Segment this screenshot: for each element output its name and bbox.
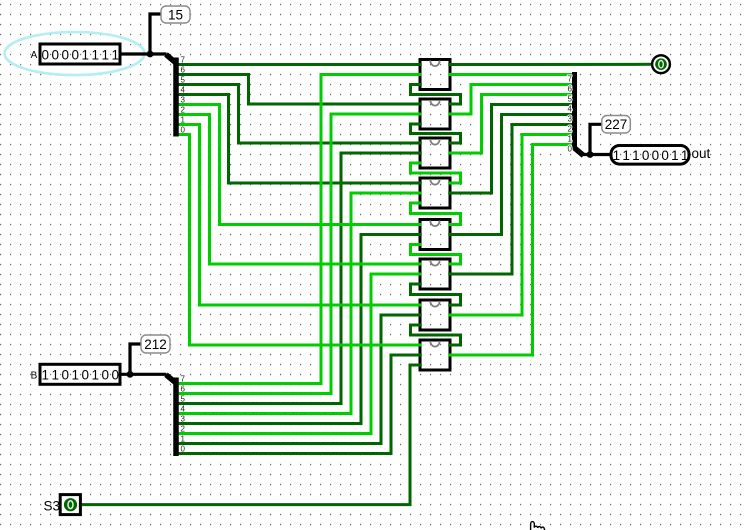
svg-text:1: 1 <box>568 135 573 144</box>
svg-text:7: 7 <box>181 56 186 65</box>
svg-text:0: 0 <box>642 148 650 163</box>
wire U6.sum to out bit2 <box>448 125 573 275</box>
wire B bit5 to U3.b <box>178 153 422 404</box>
bus wire B <box>120 373 167 376</box>
svg-text:1: 1 <box>82 47 90 62</box>
wire B bit4 to U4.b <box>178 193 422 414</box>
wire B bit2 to U6.b <box>178 274 422 434</box>
svg-text:6: 6 <box>181 66 186 75</box>
wire U1.cout to carry-out pin <box>448 63 652 66</box>
splitter for A (8-bit fanout) <box>166 55 186 137</box>
full-adder box U3 (bit 5) <box>420 138 450 168</box>
full-adder box U2 (bit 6) <box>420 99 450 129</box>
svg-text:227: 227 <box>605 117 628 132</box>
svg-text:6: 6 <box>181 385 186 394</box>
bus wire A <box>120 52 167 55</box>
svg-text:1: 1 <box>42 368 50 383</box>
svg-text:1: 1 <box>181 435 186 444</box>
svg-text:4: 4 <box>181 86 186 95</box>
svg-text:2: 2 <box>181 425 186 434</box>
probe 15 on A <box>161 6 190 23</box>
junction node on out bus <box>587 151 594 158</box>
probe 227 on out <box>602 116 631 134</box>
wire A bit2 to U6.a <box>178 115 422 265</box>
svg-text:1: 1 <box>112 47 120 62</box>
svg-text:B: B <box>31 370 38 381</box>
svg-text:1: 1 <box>92 368 100 383</box>
svg-text:1: 1 <box>622 148 630 163</box>
output pin out value 11100011 <box>611 146 711 165</box>
bus wire out <box>581 153 612 156</box>
svg-text:7: 7 <box>568 75 573 84</box>
hand cursor <box>531 522 546 530</box>
svg-text:0: 0 <box>82 368 90 383</box>
wire carry U3.cout to U2.cin <box>411 124 461 143</box>
wire B bit1 to U7.b <box>178 315 422 444</box>
svg-text:0: 0 <box>112 368 120 383</box>
wire B bit3 to U5.b <box>178 235 422 424</box>
wire carry U4.cout to U3.cin <box>411 163 461 183</box>
svg-text:0: 0 <box>181 126 186 135</box>
svg-text:0: 0 <box>181 445 186 454</box>
svg-text:0: 0 <box>652 148 660 163</box>
svg-text:1: 1 <box>671 148 679 163</box>
output pin carry-out value 0 <box>652 55 670 73</box>
svg-text:2: 2 <box>181 106 186 115</box>
wire U7.sum to out bit1 <box>448 135 573 316</box>
svg-text:S3: S3 <box>44 498 61 513</box>
wire U4.sum to out bit4 <box>448 105 573 194</box>
full-adder box U7 (bit 1) <box>420 300 450 330</box>
splitter for B (8-bit fanout) <box>166 375 186 456</box>
wire U5.sum to out bit3 <box>448 115 573 235</box>
junction node on B bus <box>127 371 134 378</box>
svg-text:3: 3 <box>181 96 186 105</box>
annotation oval around input A <box>5 32 145 75</box>
svg-text:6: 6 <box>568 85 573 94</box>
wire carry U8.cout to U7.cin <box>411 325 461 345</box>
full-adder box U6 (bit 2) <box>420 259 450 289</box>
svg-text:out: out <box>692 146 711 161</box>
svg-text:212: 212 <box>144 337 167 352</box>
wire B bit0 to U8.b <box>178 355 422 454</box>
input pin A value 00001111 <box>31 44 120 64</box>
svg-text:4: 4 <box>181 405 186 414</box>
svg-text:0: 0 <box>42 47 50 62</box>
svg-text:0: 0 <box>568 145 573 154</box>
svg-text:0: 0 <box>62 368 70 383</box>
svg-text:0: 0 <box>72 47 80 62</box>
svg-text:5: 5 <box>568 95 573 104</box>
wire B bit7 to U1.b <box>178 75 422 384</box>
svg-text:1: 1 <box>92 47 100 62</box>
svg-text:1: 1 <box>632 148 640 163</box>
wire A bit0 to U8.a <box>178 135 422 346</box>
wire A bit3 to U5.a <box>178 105 422 225</box>
svg-text:0: 0 <box>661 148 669 163</box>
svg-text:1: 1 <box>72 368 80 383</box>
input pin B value 11010100 <box>31 364 120 384</box>
junction node on A bus <box>147 51 154 58</box>
svg-text:1: 1 <box>102 47 110 62</box>
svg-text:0: 0 <box>62 47 70 62</box>
svg-text:3: 3 <box>181 415 186 424</box>
svg-text:5: 5 <box>181 395 186 404</box>
svg-text:3: 3 <box>568 115 573 124</box>
full-adder box U5 (bit 3) <box>420 220 450 250</box>
wire A bit6 to U2.a <box>178 75 422 105</box>
wire probe 212 stub <box>130 344 142 374</box>
svg-text:15: 15 <box>168 7 183 22</box>
full-adder box U4 (bit 4) <box>420 178 450 208</box>
wire A bit1 to U7.a <box>178 125 422 306</box>
svg-text:1: 1 <box>681 148 689 163</box>
svg-text:4: 4 <box>568 105 573 114</box>
svg-text:1: 1 <box>181 116 186 125</box>
wire U3.sum to out bit5 <box>448 95 573 154</box>
svg-text:2: 2 <box>568 125 573 134</box>
svg-text:1: 1 <box>613 148 621 163</box>
wire A bit7 to U1.a <box>178 63 422 66</box>
wire carry U7.cout to U6.cin <box>411 284 461 305</box>
probe 212 on B <box>141 335 170 353</box>
svg-text:0: 0 <box>102 368 110 383</box>
combiner splitter to out <box>568 72 584 156</box>
wire probe 227 stub <box>590 124 602 154</box>
wire U8.sum to out bit0 <box>448 145 573 356</box>
svg-text:5: 5 <box>181 76 186 85</box>
svg-text:7: 7 <box>181 375 186 384</box>
wire S3 to U8.cin <box>81 365 422 505</box>
wire U1.sum to out bit7 <box>448 73 573 76</box>
svg-text:0: 0 <box>52 47 60 62</box>
full-adder box U1 (bit 7) <box>420 60 450 90</box>
wire carry U2.cout to U1.cin <box>411 85 461 105</box>
wire B bit6 to U2.b <box>178 114 422 394</box>
wire probe 15 stub <box>150 14 162 54</box>
wire carry U5.cout to U4.cin <box>411 203 461 225</box>
wire A bit4 to U4.a <box>178 95 422 184</box>
full-adder box U8 (bit 0) <box>420 340 450 370</box>
wire carry U6.cout to U5.cin <box>411 245 461 265</box>
svg-text:A: A <box>31 50 38 61</box>
svg-text:1: 1 <box>52 368 60 383</box>
wire U2.sum to out bit6 <box>448 85 573 115</box>
input pin S3 value 0 <box>44 495 81 515</box>
wire A bit5 to U3.a <box>178 85 422 144</box>
